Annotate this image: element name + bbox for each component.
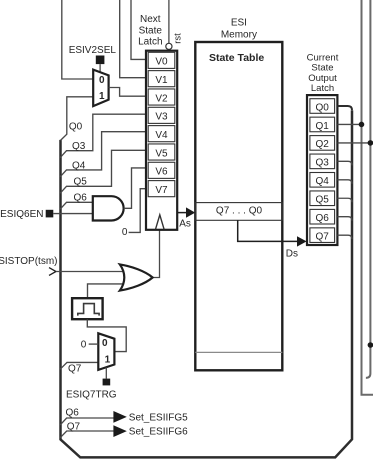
svg-text:V1: V1	[155, 75, 168, 86]
svg-text:1: 1	[99, 91, 105, 102]
svg-text:Q7: Q7	[67, 422, 81, 433]
svg-text:Q4: Q4	[316, 176, 330, 187]
svg-text:Ds: Ds	[286, 248, 298, 259]
svg-text:Q2: Q2	[316, 139, 330, 150]
svg-text:Memory: Memory	[221, 30, 257, 41]
svg-text:0: 0	[102, 338, 108, 349]
svg-text:State Table: State Table	[209, 52, 264, 64]
svg-text:Q4: Q4	[72, 160, 86, 171]
svg-text:Q7: Q7	[316, 231, 330, 242]
svg-text:ESIQ7TRG: ESIQ7TRG	[66, 390, 117, 401]
svg-text:V2: V2	[155, 93, 168, 104]
svg-text:V4: V4	[155, 130, 168, 141]
svg-text:Q3: Q3	[72, 141, 86, 152]
svg-text:Q0: Q0	[316, 102, 330, 113]
svg-text:Q5: Q5	[74, 177, 88, 188]
svg-text:V0: V0	[155, 57, 168, 68]
svg-text:V7: V7	[155, 185, 168, 196]
svg-text:ESISTOP(tsm): ESISTOP(tsm)	[0, 256, 58, 267]
svg-text:0: 0	[81, 339, 87, 350]
svg-text:Set_ESIIFG5: Set_ESIIFG5	[129, 412, 188, 423]
svg-text:Q5: Q5	[316, 195, 330, 206]
svg-text:Q6: Q6	[74, 193, 88, 204]
svg-text:1: 1	[105, 354, 111, 365]
svg-text:State: State	[139, 25, 163, 36]
svg-text:ESI: ESI	[231, 18, 247, 29]
svg-text:rst: rst	[172, 33, 183, 44]
svg-text:As: As	[179, 218, 191, 229]
svg-text:V3: V3	[155, 112, 168, 123]
svg-text:Next: Next	[140, 14, 161, 25]
svg-text:ESIQ6EN: ESIQ6EN	[0, 209, 43, 220]
svg-text:Q7 . . . Q0: Q7 . . . Q0	[216, 206, 263, 217]
svg-text:Latch: Latch	[138, 36, 162, 47]
svg-text:Latch: Latch	[311, 83, 334, 94]
svg-text:Q1: Q1	[316, 121, 330, 132]
svg-text:Q0: Q0	[69, 122, 83, 133]
svg-text:Q3: Q3	[316, 158, 330, 169]
svg-text:V5: V5	[155, 148, 168, 159]
svg-text:0: 0	[122, 227, 128, 238]
svg-text:V6: V6	[155, 167, 168, 178]
svg-text:ESIV2SEL: ESIV2SEL	[69, 45, 117, 56]
svg-text:Q6: Q6	[66, 408, 80, 419]
svg-text:0: 0	[99, 75, 105, 86]
svg-text:Q6: Q6	[316, 213, 330, 224]
svg-text:Set_ESIIFG6: Set_ESIIFG6	[129, 427, 188, 438]
svg-text:Q7: Q7	[68, 363, 82, 374]
